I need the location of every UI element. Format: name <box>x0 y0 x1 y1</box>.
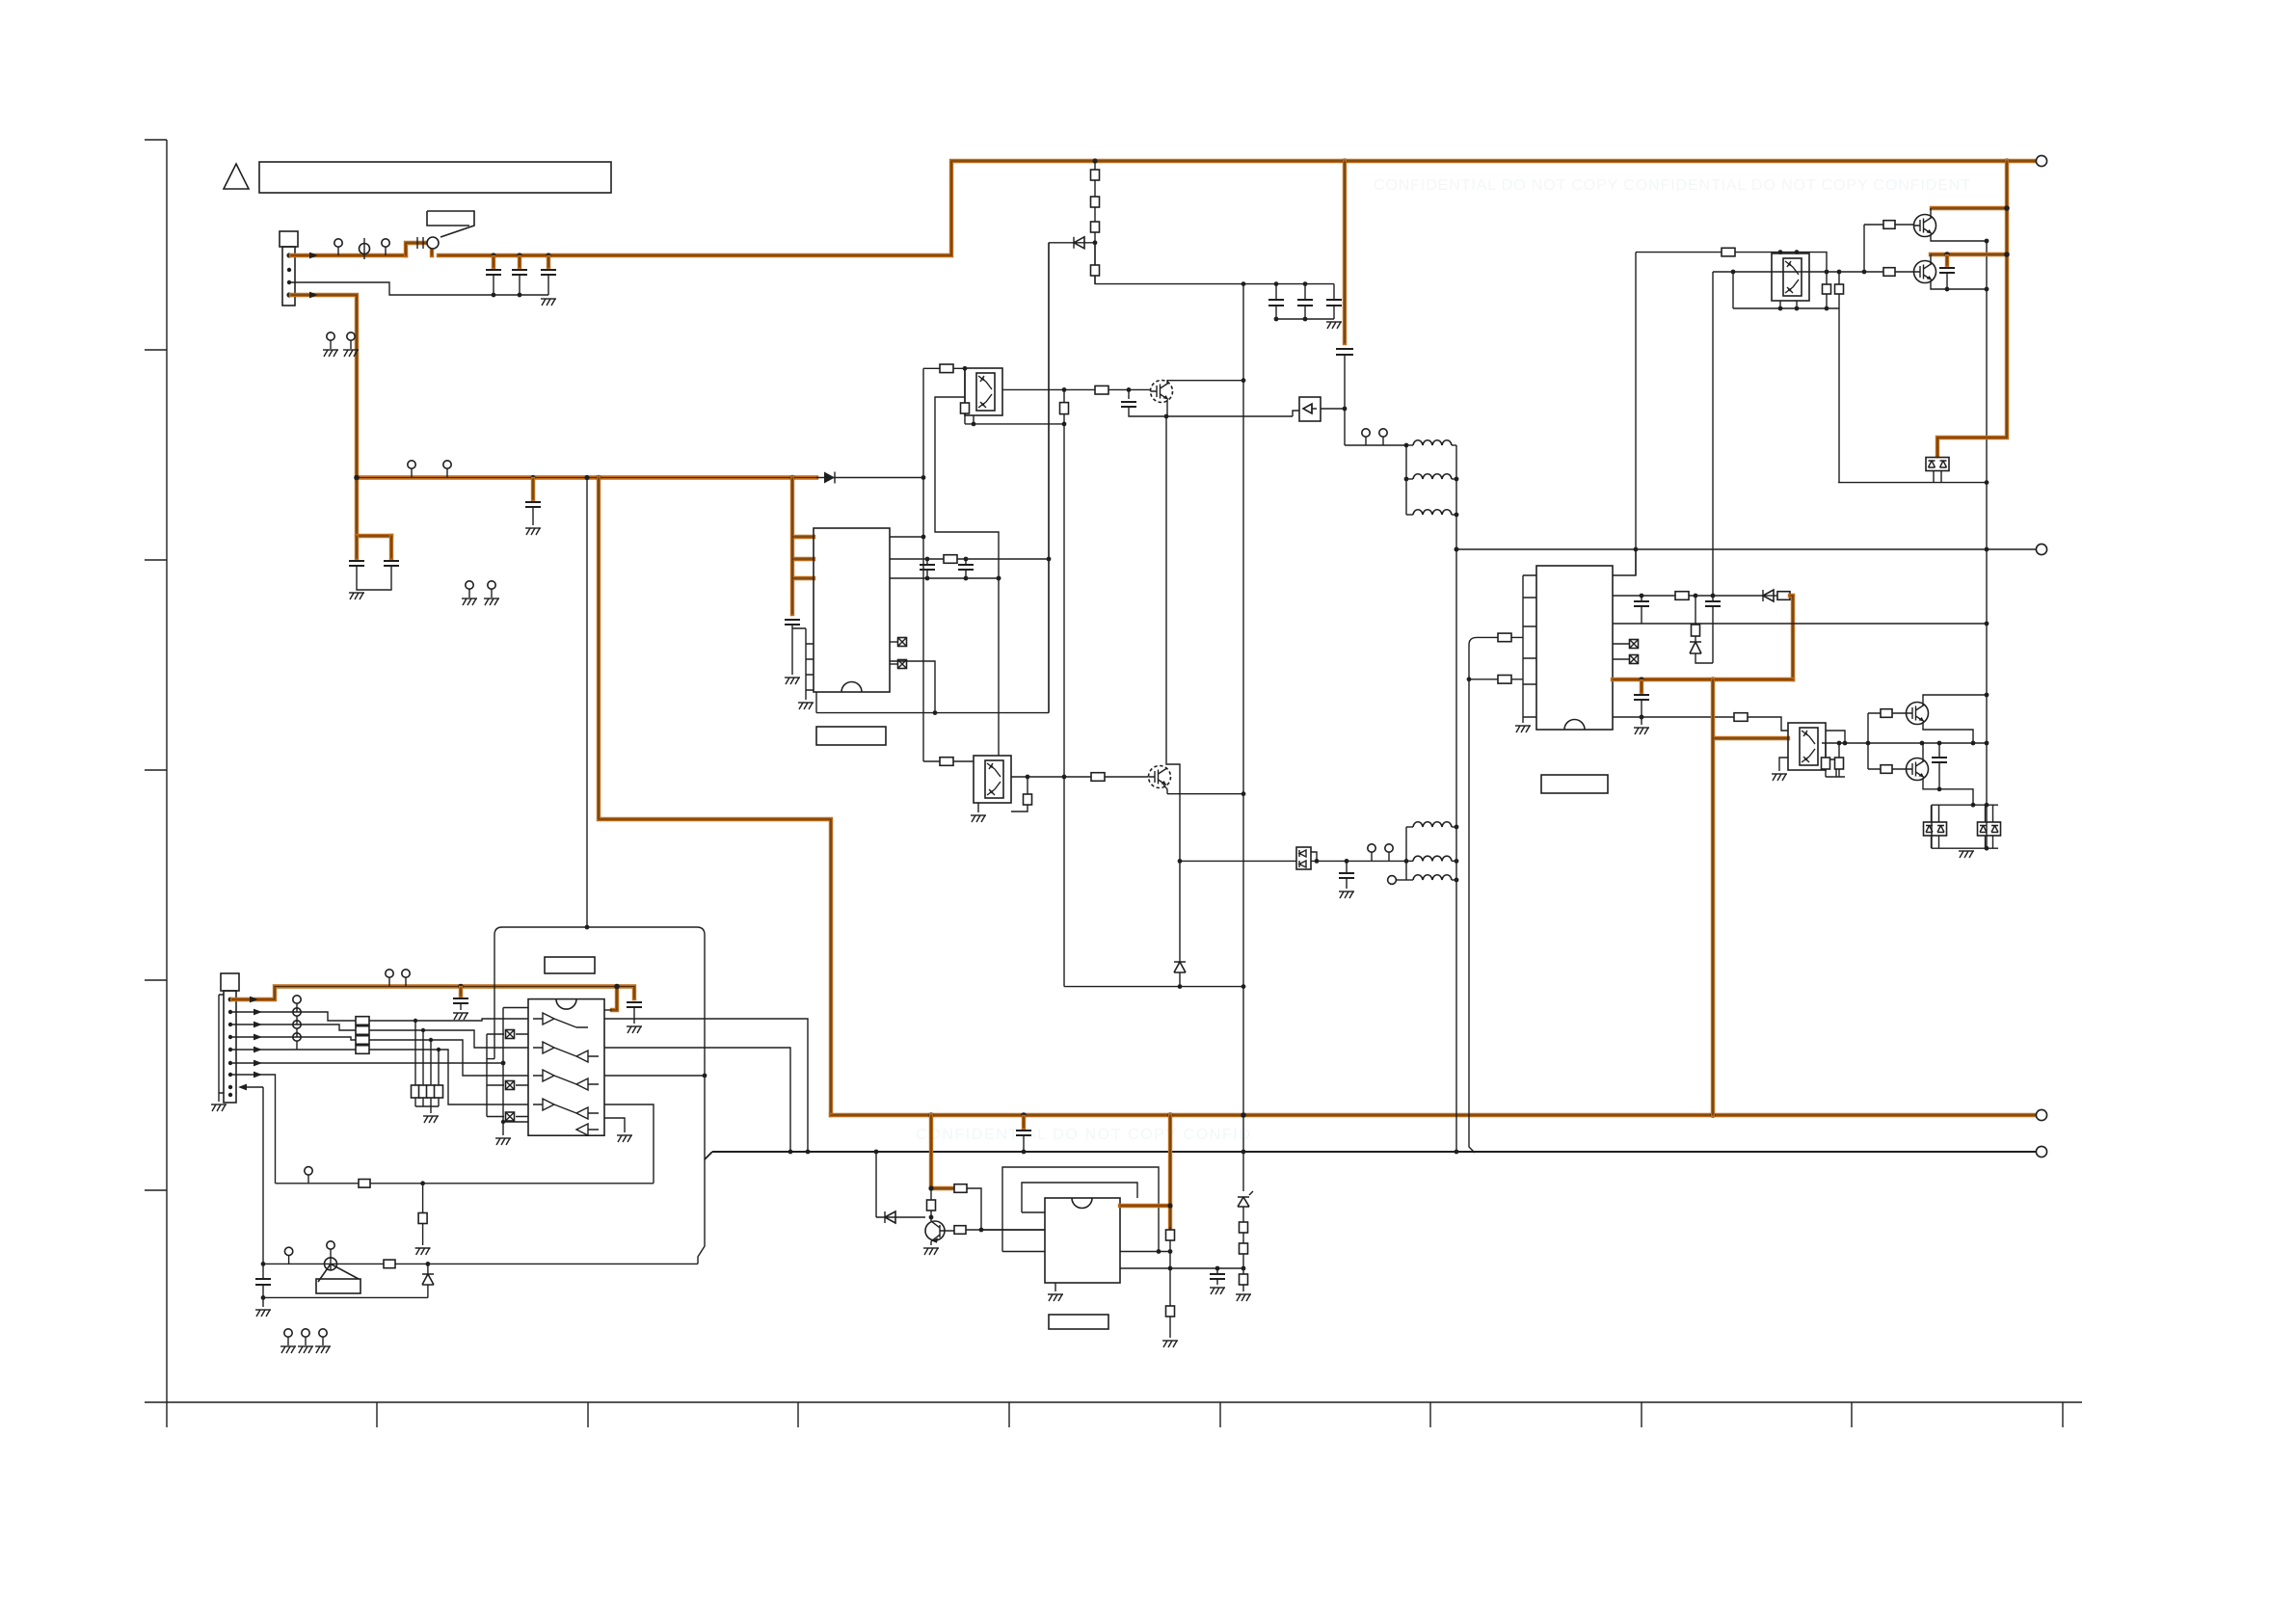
capacitor C24 at bus end <box>627 1002 642 1007</box>
U4 inverters row3 <box>533 1070 599 1090</box>
U2 pin row 597 <box>1613 549 1636 575</box>
U4 inverter row5 <box>576 1124 599 1135</box>
wire h282 from v1777 <box>1713 271 1883 273</box>
ground under C6 <box>525 528 541 535</box>
U4 ground left <box>495 1138 511 1145</box>
piezo sensor circle-plus <box>325 1241 337 1270</box>
CN2 pin5 wire <box>232 1049 356 1051</box>
wire h835 <box>1932 804 1998 806</box>
vertical v273 <box>262 1087 264 1264</box>
wire C4/C5 bottoms <box>357 566 391 590</box>
top centre driver: feed wire h382 <box>923 367 965 369</box>
resistor R7 below output <box>1060 403 1069 414</box>
transformer T1 left rail <box>1405 445 1407 515</box>
U4 output row3 <box>604 1075 705 1077</box>
resistor R16 <box>1675 592 1689 600</box>
capacitor C9 <box>1275 284 1277 300</box>
CN2 pin3 wire <box>232 1024 356 1030</box>
orange from CN2 pin1 <box>232 987 634 1011</box>
U2 pin row 744 <box>1613 717 1788 731</box>
ground U1 bottom left <box>798 703 814 709</box>
PC1 left lower pin wire <box>935 397 999 756</box>
node mark xbox1 <box>890 641 897 643</box>
junction dot O3 cap branch <box>530 475 535 480</box>
IGBT Q1 <box>1914 215 1936 237</box>
orange U3 right pin <box>1120 1204 1170 1208</box>
transformer T2 left rail <box>1405 827 1407 880</box>
test point on O1 <box>334 239 342 255</box>
capacitor C3 <box>541 270 556 275</box>
U2 value label box <box>1541 775 1608 793</box>
PC1 output wire <box>1002 388 1095 390</box>
PC3 lower left ground <box>1779 758 1788 771</box>
IC U4 hex buffer <box>528 999 604 1136</box>
wire orange bus O3 <box>357 475 816 479</box>
CN2 pin6 wire <box>232 1062 503 1064</box>
wire orange end into U4 <box>604 1009 612 1011</box>
orange Q2 collector row <box>1931 253 2007 256</box>
vertical stub v1798 <box>1732 272 1734 308</box>
wire CN1 pin3 <box>291 282 548 295</box>
sensor line h1311 <box>263 1263 698 1264</box>
ground R34 <box>415 1248 431 1255</box>
warning triangle <box>224 164 249 189</box>
diode D10 <box>885 1211 895 1223</box>
wire h1346 <box>263 1296 428 1298</box>
IGBT Q6 <box>1149 766 1171 788</box>
bottom IC U3 block: orange drop v966 <box>931 1115 954 1188</box>
wire h771 right <box>1868 742 1987 744</box>
resistor R21 vertical <box>1838 743 1840 777</box>
thermal cutout circle <box>427 237 439 249</box>
U4 right ground <box>604 1118 625 1132</box>
junction dots caps row <box>1241 281 1246 286</box>
wire h893 <box>1180 860 1406 862</box>
resistor R17 vertical <box>1695 596 1696 642</box>
terminal circle h570 <box>2036 544 2046 554</box>
fuse bars on hump <box>417 237 423 249</box>
IGBT Q2 <box>1914 261 1936 283</box>
diode D6 on row618 <box>1763 595 1777 597</box>
U3 outer loop <box>1002 1167 1159 1252</box>
resistor R20 vertical <box>1825 743 1827 777</box>
CN2 pin4 wire <box>232 1037 356 1040</box>
U2 pin row 618 <box>1613 595 1763 597</box>
resistor R33 <box>359 1180 370 1188</box>
wires after array <box>369 1019 528 1021</box>
dual diode pack D9 <box>1926 458 1949 471</box>
IC U3 <box>1045 1198 1120 1283</box>
wire h320 <box>1733 307 1839 309</box>
U3 right pin row h1316 <box>1120 1267 1243 1269</box>
resistor R4 <box>1091 265 1100 276</box>
test points on O3 <box>408 461 415 477</box>
resistor R11 <box>1240 1274 1248 1285</box>
T2 terminal circle <box>1388 876 1397 885</box>
capacitor C18 <box>1712 596 1714 601</box>
vertical v1697 <box>1635 253 1637 575</box>
Q5 collector wire <box>1167 381 1243 384</box>
capacitor C2 <box>512 270 527 275</box>
long vertical v1290 <box>1242 284 1244 1115</box>
top right cluster: orange v2082 <box>1937 161 2007 456</box>
ghost watermark band top right <box>1374 177 1971 194</box>
vertical v958 <box>922 368 924 761</box>
ground lower cluster <box>1959 851 1974 858</box>
CN2 pin7 wire <box>232 1075 276 1184</box>
ground under C16 <box>1339 891 1354 898</box>
CN2 pin8 wire with left arrow <box>246 1086 263 1088</box>
vertical v909 <box>875 1152 877 1217</box>
wire h570 long <box>1456 548 2036 550</box>
Q1 base resistor R24 <box>1864 224 1913 226</box>
vertical v1908 <box>1838 308 1840 483</box>
Q2 collector stub <box>1930 254 1932 264</box>
U1 right pin 4 row <box>890 661 935 713</box>
PC2 bottom left ground <box>977 803 979 812</box>
U1 value label box <box>816 727 886 745</box>
capacitor C19 <box>1634 695 1649 700</box>
resistor chain from O1: wire <box>1095 161 1334 284</box>
terminal circle right end of O1 <box>2036 155 2046 166</box>
bracket wire down to logic bus <box>1469 637 1477 1153</box>
piezo sensor body <box>318 1264 359 1282</box>
ground U2 left rail <box>1515 726 1531 732</box>
wire h739 under U1 <box>816 243 1049 713</box>
capacitor stub orange C3 <box>547 257 550 267</box>
resistor R28 vertical <box>1838 272 1840 308</box>
U3 left pin row h1258 <box>1022 1211 1045 1213</box>
zener D11 <box>427 1264 429 1274</box>
ground trio <box>284 1329 292 1345</box>
wire D1 to v958 <box>835 477 923 479</box>
orange v1214 <box>1168 1115 1172 1227</box>
wire h880 <box>1932 805 1998 848</box>
svg-text:CONFIDENTIAL DO NOT COPY CONFI: CONFIDENTIAL DO NOT COPY CONFIDENTIAL DO… <box>1374 177 1971 194</box>
wire h806 <box>1826 776 1845 778</box>
junction dots bottom orange bus <box>928 1112 934 1118</box>
capacitor C12 on v1395 <box>1336 349 1353 355</box>
connector CN2 body <box>224 991 236 1103</box>
U3 inner loop <box>1022 1183 1137 1212</box>
ground v1214 <box>1162 1341 1178 1347</box>
U1 right pin 3 row <box>890 577 999 579</box>
resistor R29 <box>954 1184 967 1193</box>
ground caps cluster <box>1326 322 1342 329</box>
PC1 bottom wire <box>965 423 1064 425</box>
black bus lower <box>705 1152 2036 1159</box>
capacitor C8 <box>1016 1131 1031 1135</box>
thermal sensor flag box <box>427 211 474 237</box>
orange drop v1395 <box>1343 161 1347 343</box>
U2 right node mark xbox4 <box>1613 658 1629 660</box>
dual diode pack D7 <box>1924 822 1947 836</box>
U3 left pin row h1276 <box>981 1229 1045 1231</box>
U1 right pin 2 row <box>890 558 1049 560</box>
orange stub C23 <box>459 988 463 996</box>
ground chain B <box>1236 1294 1251 1301</box>
U2 right node mark xbox3 <box>1613 643 1629 645</box>
resistor R8 in series to Q5 <box>1095 386 1108 394</box>
resistor R10 <box>1240 1243 1248 1254</box>
capacitor C25 <box>262 1264 264 1279</box>
Q2 emitter wire <box>1931 280 1987 289</box>
Q1 emitter wire <box>1931 234 1987 241</box>
orange corner row618 to row705 <box>1790 596 1793 679</box>
resistor R12 <box>944 555 957 564</box>
orange v1777 down and to PC3 <box>1713 679 1788 1115</box>
resistor R2 <box>1091 197 1100 207</box>
T2 winding top <box>1406 826 1413 828</box>
resistor array RA1 <box>356 1017 369 1025</box>
U3 value label box <box>1049 1315 1108 1329</box>
resistor R9 <box>1240 1222 1248 1233</box>
wire h1263 with diode <box>876 1216 925 1218</box>
PC2 top pin from v1036 <box>997 576 1001 581</box>
resistor R27 vertical <box>1826 272 1828 308</box>
orange stub cap C6 <box>531 479 535 499</box>
ground under C22 <box>1210 1288 1225 1294</box>
photocoupler PC4 <box>1772 253 1809 301</box>
photocoupler PC2 <box>974 756 1011 803</box>
Q1 collector stub <box>1930 208 1932 218</box>
Q5 emitter wire <box>1166 400 1168 416</box>
sensor area: wire h1227 <box>276 1183 654 1184</box>
U2 input resistor Ra <box>1477 636 1523 638</box>
resistor R3 <box>1091 222 1100 232</box>
U4 value label box (above) <box>545 957 595 973</box>
wire caps bottom <box>1276 318 1334 320</box>
resistor R19 <box>1734 713 1748 722</box>
wire orange main bus O1 <box>291 161 2036 255</box>
ground under C4 <box>349 593 364 599</box>
U4 inverters row4 <box>533 1099 599 1119</box>
test points on h893 <box>1368 844 1375 861</box>
Q3 collector <box>1923 695 1987 705</box>
xbox feed vertical <box>486 1034 488 1117</box>
U4 output row1 <box>604 1019 808 1152</box>
U3 right pin row h1298 <box>1120 1251 1170 1253</box>
U4 left rail <box>503 1008 528 1136</box>
ground under C23 <box>453 1013 468 1020</box>
capacitor C7 under U1 orange rail <box>785 620 800 625</box>
IGBT Q3 <box>1907 703 1929 725</box>
terminal circle black bus <box>2036 1146 2046 1157</box>
vertical v1777 black <box>1712 272 1714 596</box>
connector CN1 top cap <box>280 231 298 247</box>
IC U1 <box>814 528 890 692</box>
U3 left pin row h1298 <box>1002 1251 1045 1253</box>
connector CN1 body <box>282 247 295 306</box>
PC4 top pins <box>1780 253 1797 253</box>
resistor R6 <box>961 403 970 413</box>
ground at C3 <box>541 299 556 306</box>
resistor R1 <box>1091 170 1100 180</box>
warning note box <box>259 162 611 193</box>
long vertical v609 <box>586 478 588 928</box>
orange cap stubs O2 <box>357 536 391 558</box>
Q4 emitter <box>1923 778 1973 805</box>
wire orange bottom bus <box>831 1113 2036 1117</box>
PC2 output row <box>1011 776 1148 778</box>
zener D5 <box>1690 642 1701 653</box>
capacitor C21 <box>1939 268 1955 273</box>
U2 left rail <box>1523 575 1536 723</box>
Q8 base wire <box>940 1230 1045 1231</box>
zener D3 with flash <box>1238 1197 1249 1207</box>
resistor R13 <box>940 758 953 766</box>
capacitor C23 <box>453 998 468 1003</box>
wire h1023 <box>1064 986 1243 988</box>
orange stub to C19 <box>1640 681 1643 692</box>
ground under C7 <box>785 678 800 684</box>
resistor R14 <box>1091 773 1105 782</box>
pulldown pack verticals <box>415 1021 439 1085</box>
long vertical v731 <box>698 935 705 1264</box>
pulldown resistor pack RA2 <box>412 1085 420 1098</box>
U4 output row2 <box>604 1048 790 1152</box>
Q2 base resistor R25 <box>1895 271 1913 273</box>
resistor R34 vertical <box>422 1184 424 1245</box>
CN2 pin dots <box>228 998 233 1002</box>
resistor R26 <box>1722 248 1735 256</box>
ground pair stubs upper <box>327 333 334 349</box>
test point stack <box>293 996 301 1012</box>
resistor R5 <box>940 364 953 373</box>
pack bottom common <box>415 1098 439 1106</box>
orange branch to U1 left pins <box>792 478 814 615</box>
junction dots on O1 <box>491 253 495 257</box>
base rail v1934 <box>1863 225 1865 272</box>
IC U2 <box>1536 566 1613 730</box>
test point on O1 <box>382 239 389 255</box>
T1 right rail joins v1511 <box>1455 477 1459 482</box>
Q3 Q4 base rail <box>1867 713 1869 769</box>
frame left border <box>145 140 2082 1427</box>
junction dot O3 at v609 <box>584 475 589 480</box>
bottom-left: connector CN2 cap <box>221 973 239 991</box>
photocoupler PC1 <box>965 368 1002 415</box>
U1 left lower rail <box>792 628 814 700</box>
U3 bottom pin ground <box>1055 1283 1056 1291</box>
capacitor C22 <box>1216 1268 1218 1274</box>
resistor R18 <box>1777 592 1790 600</box>
photocoupler PC3 <box>1788 723 1826 770</box>
fuse symbol circle-plus on O1 <box>360 238 370 259</box>
capacitor C5 <box>384 561 399 566</box>
diode D1 at O3 end <box>816 477 835 479</box>
capacitor C11 <box>1333 284 1335 300</box>
U4 inverters row1 <box>533 1013 588 1027</box>
ground under row744 <box>1641 717 1642 725</box>
resistor R15 below output <box>1011 777 1028 811</box>
resistor R31 on v1214 <box>1169 1227 1171 1338</box>
resistor R23 <box>1868 768 1906 770</box>
U4 inverters row2 <box>533 1042 599 1062</box>
orange cap stub at 1062 <box>1022 1117 1026 1128</box>
capacitor C15 <box>965 559 967 565</box>
wire below C12 <box>1344 355 1346 445</box>
diode D2 <box>1074 242 1095 244</box>
test points on orange run <box>386 970 393 986</box>
transistor Q8 <box>925 1221 945 1240</box>
junction dot O3 at v621 <box>596 475 601 481</box>
svg-text:CONFIDENTIAL DO NOT COPY CONFI: CONFIDENTIAL DO NOT COPY CONFID <box>916 1127 1251 1143</box>
capacitor C13 at Q5 base <box>1128 389 1130 399</box>
PC1 left resistor chain <box>964 368 966 424</box>
resistor R35 <box>384 1260 395 1268</box>
CN2 pin2 wire <box>232 1012 356 1021</box>
dual diode pack D8 <box>1978 822 2001 836</box>
capacitor C16 under h893 <box>1346 861 1348 873</box>
long vertical v1104 <box>1063 389 1065 986</box>
v1290 lower chain below black bus <box>1242 1115 1244 1191</box>
wire orange O1 fuse hump <box>406 243 432 255</box>
ground Q8 emitter <box>923 1248 939 1255</box>
wire to T1 with test points <box>1345 444 1406 446</box>
vertical Q5 emitter to Q6 collector <box>1166 416 1180 861</box>
node mark xbox2 <box>890 663 897 665</box>
PC4 bottom pins <box>1780 301 1797 308</box>
capacitor C20 <box>1938 743 1940 758</box>
T1 winding mid <box>1406 478 1413 480</box>
ground v273 <box>262 1297 264 1307</box>
capacitor C1 <box>486 270 501 275</box>
orange stub C21 <box>1945 256 1949 265</box>
ground pack <box>430 1106 432 1113</box>
lower driver PC2 feed <box>923 760 974 762</box>
wire orange to bottom section: v621 elbow <box>599 478 831 1116</box>
cluster2 rail h771 <box>1822 742 1868 744</box>
capacitor C4 <box>349 561 364 566</box>
capacitor stub orange C2 <box>518 257 521 267</box>
PC4 feed wire h261 <box>1636 253 1827 272</box>
long vertical v1511 <box>1455 445 1457 1152</box>
opto2 dual diode box <box>1296 847 1319 869</box>
U2 pin row 647 <box>1613 623 1987 625</box>
orange row 705 <box>1613 678 1793 681</box>
U4 output row4 <box>604 1104 654 1184</box>
wire D2 to v1088 <box>1049 242 1074 244</box>
junction diode row <box>1093 240 1098 245</box>
junction dot O3 at U1 branch <box>789 475 795 481</box>
orange Q1 collector row <box>1932 206 2007 210</box>
resistor R32 on v1214 <box>1166 1306 1175 1317</box>
IGBT Q5 <box>1151 381 1173 403</box>
wire h500 <box>1838 482 1987 484</box>
ground pair stubs mid <box>466 581 473 598</box>
CN2 left bracket ground <box>219 995 224 1102</box>
T2 winding bottom <box>1406 879 1413 881</box>
capacitor C10 <box>1304 284 1306 300</box>
capacitor stub orange C1 <box>492 257 495 267</box>
zener D4 on v1224 <box>1179 861 1181 962</box>
U1 right pin 1 wire <box>890 536 923 538</box>
T1 winding top <box>1406 444 1413 446</box>
IGBT Q4 <box>1907 758 1929 781</box>
xbox marks input rows <box>487 1033 528 1035</box>
Q6 emitter row <box>1163 785 1243 794</box>
long vertical v1088 <box>1048 243 1050 713</box>
T2 winding mid <box>1406 860 1413 862</box>
frame bottom border <box>145 1401 2082 1403</box>
diode box on emitter return <box>1293 409 1345 416</box>
terminal circle bottom orange bus <box>2036 1109 2046 1120</box>
ghost watermark band bottom middle <box>916 1127 1251 1143</box>
resistor R30 vertical on v966 <box>930 1188 932 1217</box>
arrow on CN1 pin1 wire <box>309 253 318 259</box>
long vertical v2061 <box>1986 241 1988 848</box>
